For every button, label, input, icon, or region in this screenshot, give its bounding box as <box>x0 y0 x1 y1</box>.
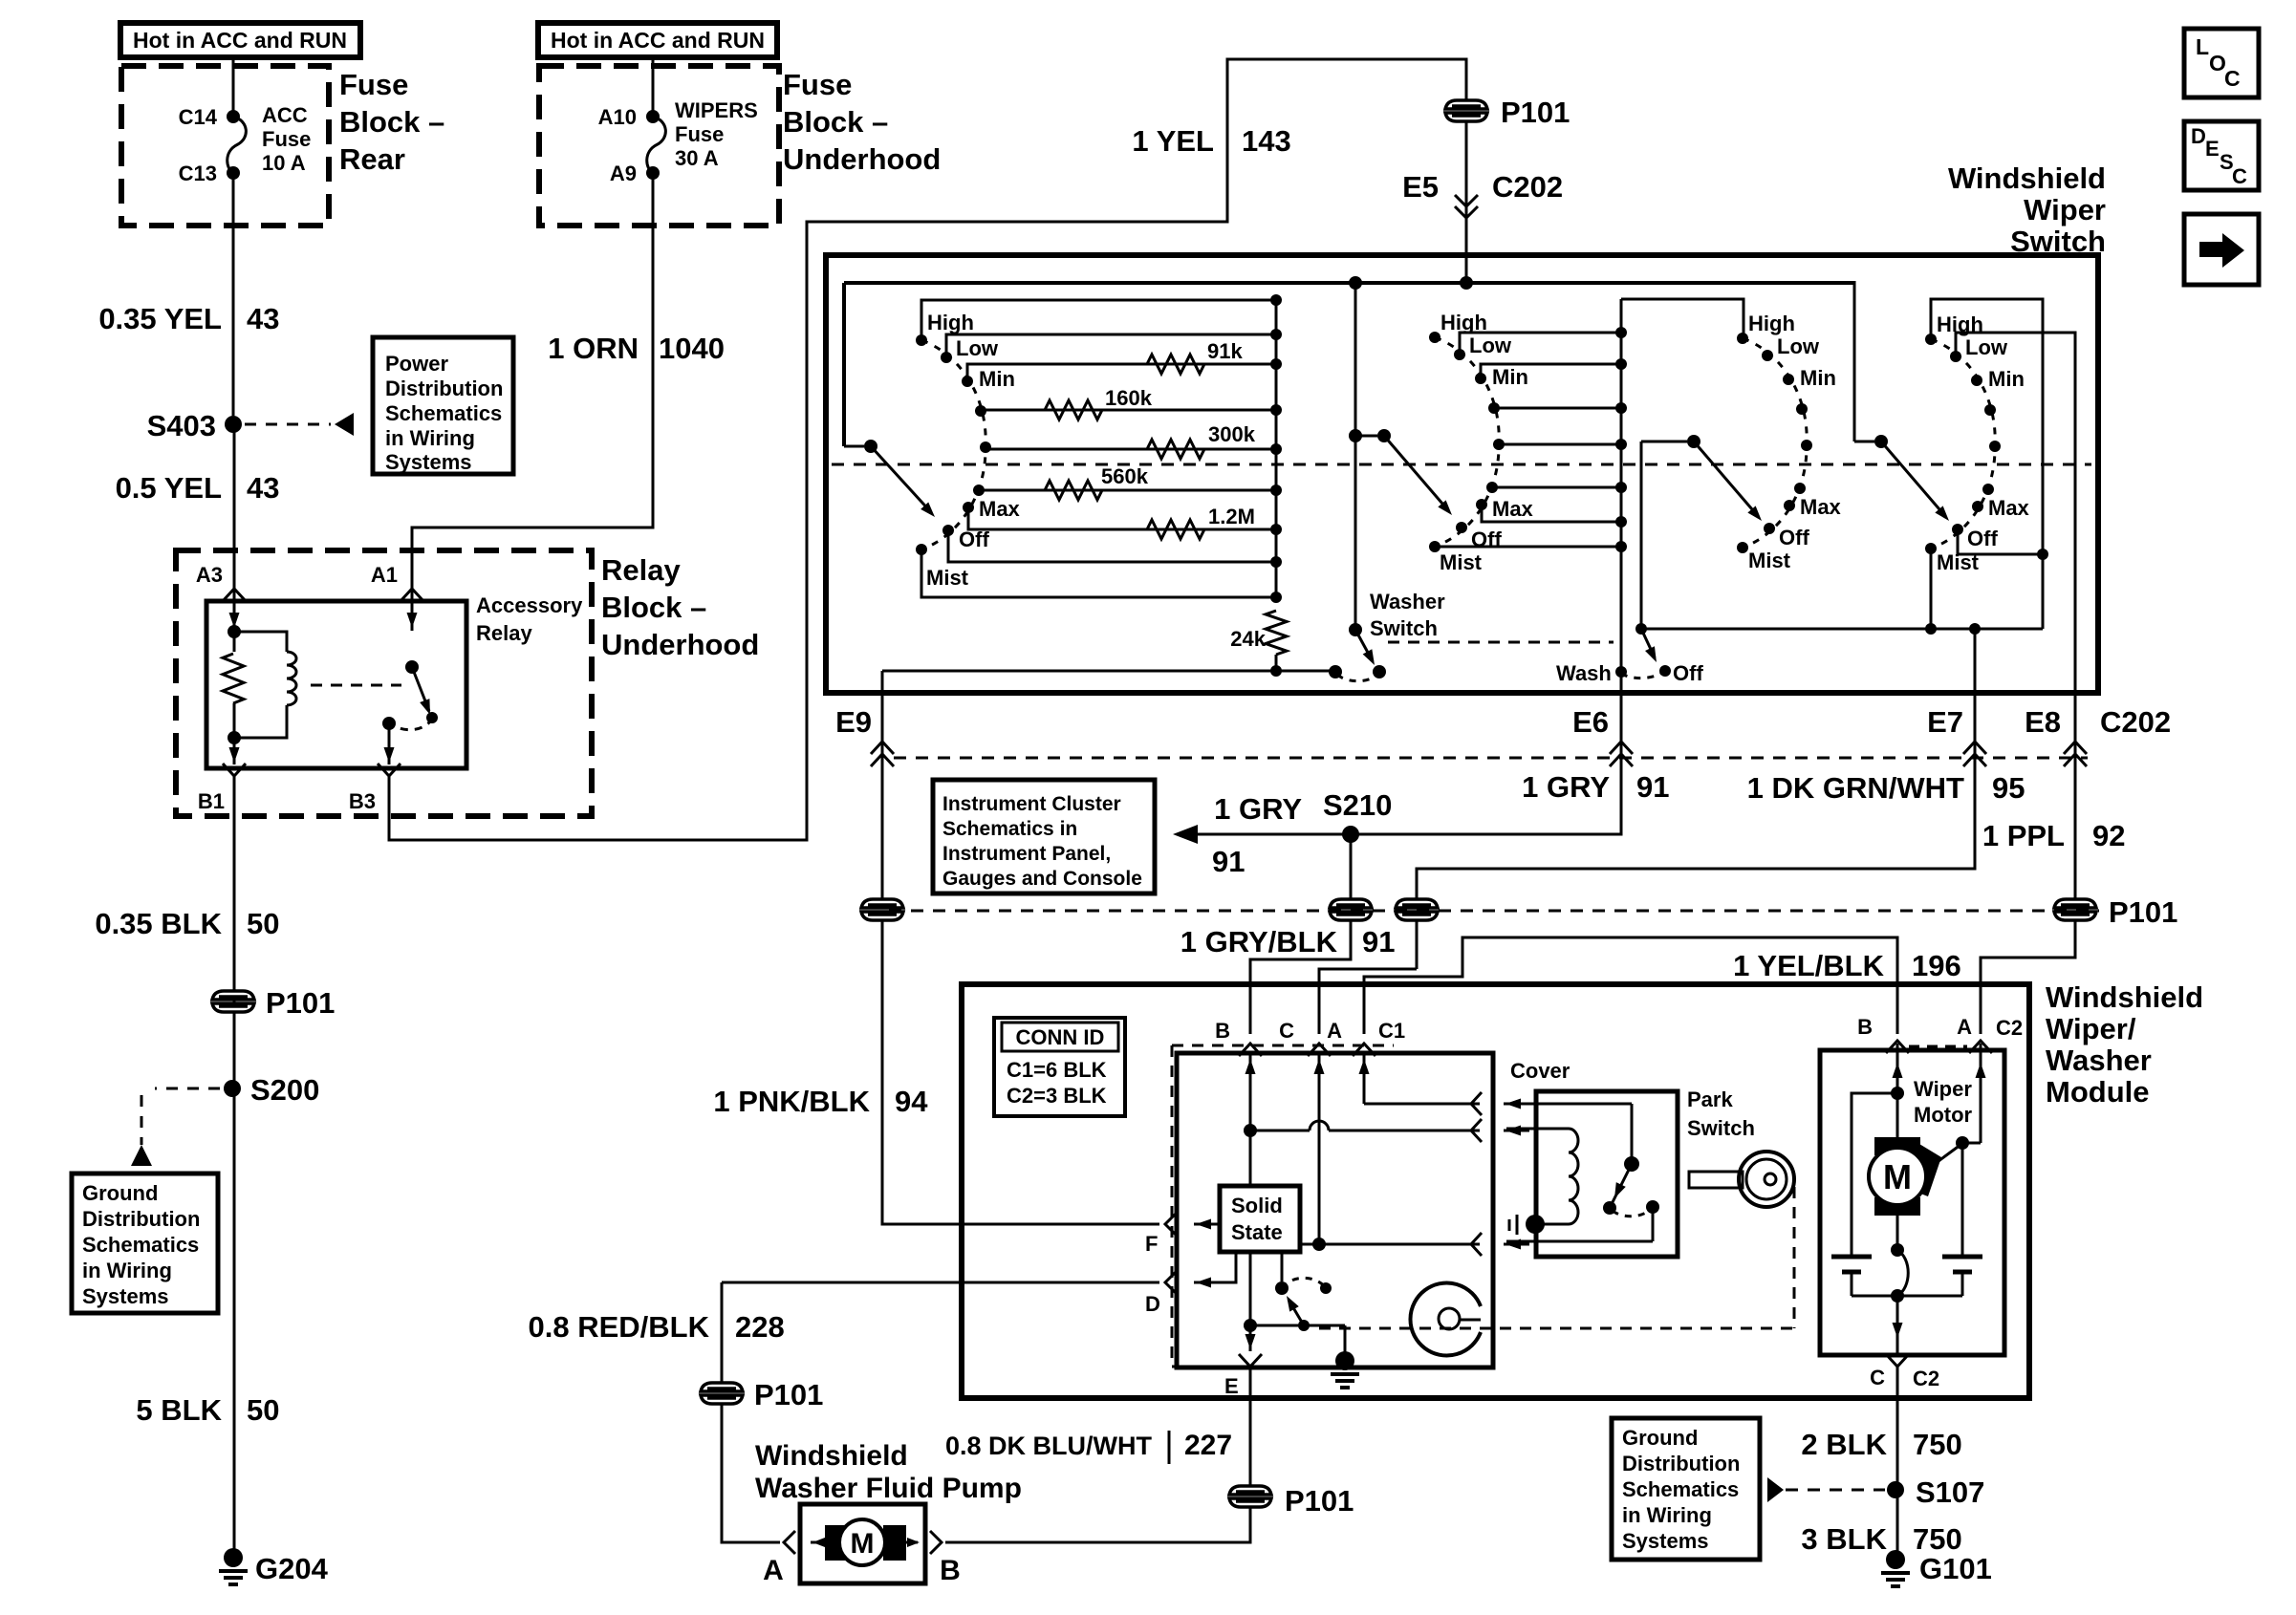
svg-text:C: C <box>1870 1366 1885 1389</box>
svg-text:C1=6 BLK: C1=6 BLK <box>1007 1058 1107 1082</box>
svg-text:196: 196 <box>1912 949 1961 982</box>
svg-text:M: M <box>1883 1157 1912 1196</box>
svg-text:Max: Max <box>1988 496 2030 520</box>
svg-text:0.35 BLK: 0.35 BLK <box>95 907 222 940</box>
svg-text:5 BLK: 5 BLK <box>136 1393 222 1427</box>
svg-text:0.5 YEL: 0.5 YEL <box>116 471 222 505</box>
svg-text:Gauges and Console: Gauges and Console <box>942 868 1142 890</box>
svg-text:50: 50 <box>247 1393 279 1427</box>
svg-text:in Wiring: in Wiring <box>82 1259 172 1282</box>
svg-text:750: 750 <box>1913 1428 1962 1461</box>
svg-text:Wash: Wash <box>1556 661 1612 685</box>
svg-text:High: High <box>1748 312 1795 335</box>
svg-text:Park: Park <box>1687 1087 1733 1111</box>
svg-text:High: High <box>927 311 974 334</box>
svg-text:0.8 DK BLU/WHT: 0.8 DK BLU/WHT <box>945 1432 1153 1460</box>
svg-text:P101: P101 <box>2109 895 2177 929</box>
svg-text:Distribution: Distribution <box>82 1207 200 1231</box>
svg-text:43: 43 <box>247 471 279 505</box>
svg-text:560k: 560k <box>1101 464 1149 488</box>
svg-text:Systems: Systems <box>82 1284 169 1308</box>
svg-text:A10: A10 <box>598 105 637 129</box>
svg-text:Fuse: Fuse <box>783 68 852 101</box>
svg-text:Underhood: Underhood <box>783 142 941 176</box>
svg-text:P101: P101 <box>266 986 335 1020</box>
svg-text:Max: Max <box>979 497 1021 521</box>
svg-text:227: 227 <box>1184 1430 1232 1461</box>
svg-text:E: E <box>2205 137 2220 161</box>
svg-text:Washer: Washer <box>1370 590 1445 614</box>
svg-text:C2: C2 <box>1913 1367 1939 1390</box>
svg-text:Off: Off <box>1967 527 1998 550</box>
svg-text:Fuse: Fuse <box>262 127 311 151</box>
svg-text:1 PPL: 1 PPL <box>1982 819 2065 852</box>
svg-text:Ground: Ground <box>1622 1426 1698 1450</box>
svg-text:in Wiring: in Wiring <box>385 426 475 450</box>
svg-text:C1: C1 <box>1378 1019 1405 1043</box>
svg-text:B: B <box>1215 1019 1230 1043</box>
svg-text:P101: P101 <box>754 1378 823 1411</box>
svg-text:Washer: Washer <box>2046 1044 2152 1077</box>
svg-text:Off: Off <box>1673 661 1703 685</box>
svg-text:E9: E9 <box>835 705 872 739</box>
svg-text:1 ORN: 1 ORN <box>548 332 639 365</box>
svg-text:G101: G101 <box>1919 1552 1992 1585</box>
svg-text:24k: 24k <box>1230 627 1266 651</box>
svg-text:94: 94 <box>895 1085 928 1118</box>
svg-text:C2=3 BLK: C2=3 BLK <box>1007 1084 1107 1108</box>
svg-text:Instrument Panel,: Instrument Panel, <box>942 843 1111 865</box>
svg-text:Min: Min <box>979 367 1015 391</box>
svg-text:1040: 1040 <box>659 332 725 365</box>
svg-text:C2: C2 <box>1996 1016 2023 1040</box>
svg-text:L: L <box>2196 34 2209 59</box>
svg-text:C: C <box>1279 1019 1294 1043</box>
svg-text:143: 143 <box>1242 124 1291 158</box>
svg-text:CONN ID: CONN ID <box>1016 1025 1105 1049</box>
svg-text:Module: Module <box>2046 1075 2150 1109</box>
svg-text:Relay: Relay <box>601 553 681 587</box>
svg-text:Underhood: Underhood <box>601 628 759 661</box>
svg-text:Windshield: Windshield <box>755 1440 908 1472</box>
svg-text:Instrument Cluster: Instrument Cluster <box>942 793 1121 815</box>
svg-text:Systems: Systems <box>1622 1529 1709 1553</box>
svg-text:3 BLK: 3 BLK <box>1801 1522 1887 1556</box>
svg-text:in Wiring: in Wiring <box>1622 1503 1712 1527</box>
svg-text:2 BLK: 2 BLK <box>1801 1428 1887 1461</box>
svg-text:B1: B1 <box>198 789 225 813</box>
svg-text:F: F <box>1145 1232 1158 1256</box>
svg-text:P101: P101 <box>1285 1484 1354 1518</box>
svg-text:E7: E7 <box>1927 705 1963 739</box>
svg-text:Switch: Switch <box>1370 616 1438 640</box>
svg-text:50: 50 <box>247 907 279 940</box>
svg-text:Max: Max <box>1492 497 1534 521</box>
svg-text:S403: S403 <box>147 409 216 442</box>
svg-text:1 YEL: 1 YEL <box>1132 124 1214 158</box>
svg-text:Wiper: Wiper <box>2024 193 2106 226</box>
svg-text:750: 750 <box>1913 1522 1962 1556</box>
svg-text:Wiper: Wiper <box>1914 1077 1972 1101</box>
svg-text:Windshield: Windshield <box>2046 980 2203 1014</box>
svg-text:Hot in ACC and RUN: Hot in ACC and RUN <box>133 28 347 53</box>
svg-text:A: A <box>1957 1015 1972 1039</box>
svg-text:Min: Min <box>1800 366 1836 390</box>
svg-text:C202: C202 <box>2100 705 2171 739</box>
svg-text:State: State <box>1231 1220 1283 1244</box>
svg-text:Low: Low <box>1469 334 1512 357</box>
svg-text:0.35 YEL: 0.35 YEL <box>98 302 222 335</box>
svg-text:Max: Max <box>1800 495 1842 519</box>
svg-text:1 GRY: 1 GRY <box>1522 770 1610 804</box>
svg-text:1 GRY: 1 GRY <box>1214 792 1302 826</box>
svg-text:10 A: 10 A <box>262 151 306 175</box>
svg-text:C202: C202 <box>1492 170 1563 204</box>
svg-text:Motor: Motor <box>1914 1103 1973 1127</box>
svg-text:Min: Min <box>1988 367 2025 391</box>
svg-text:Windshield: Windshield <box>1948 161 2106 195</box>
svg-text:Block –: Block – <box>339 105 444 139</box>
svg-text:C: C <box>2224 66 2241 91</box>
svg-text:B: B <box>940 1555 961 1586</box>
svg-text:S200: S200 <box>250 1073 319 1107</box>
svg-text:Relay: Relay <box>476 621 532 645</box>
svg-text:91k: 91k <box>1207 339 1243 363</box>
svg-text:P101: P101 <box>1501 96 1570 129</box>
svg-text:A9: A9 <box>610 161 637 185</box>
svg-text:High: High <box>1440 311 1487 334</box>
svg-text:Ground: Ground <box>82 1181 158 1205</box>
svg-text:High: High <box>1937 312 1983 336</box>
svg-text:B: B <box>1857 1015 1873 1039</box>
svg-text:Power: Power <box>385 352 448 376</box>
svg-text:1.2M: 1.2M <box>1208 505 1255 528</box>
svg-text:E8: E8 <box>2025 705 2061 739</box>
svg-text:Washer Fluid Pump: Washer Fluid Pump <box>755 1473 1022 1504</box>
svg-text:Schematics: Schematics <box>385 401 502 425</box>
svg-text:Wiper/: Wiper/ <box>2046 1012 2136 1045</box>
svg-text:Hot in ACC and RUN: Hot in ACC and RUN <box>551 28 765 53</box>
svg-text:Off: Off <box>1779 526 1809 549</box>
svg-text:1 PNK/BLK: 1 PNK/BLK <box>713 1085 870 1118</box>
svg-text:43: 43 <box>247 302 279 335</box>
svg-text:Distribution: Distribution <box>1622 1452 1740 1475</box>
svg-text:Solid: Solid <box>1231 1194 1283 1217</box>
svg-text:1 YEL/BLK: 1 YEL/BLK <box>1733 949 1885 982</box>
svg-text:Cover: Cover <box>1510 1059 1570 1083</box>
svg-text:Block –: Block – <box>601 591 706 624</box>
svg-text:91: 91 <box>1362 925 1395 958</box>
svg-text:E: E <box>1224 1374 1239 1398</box>
svg-text:1 DK GRN/WHT: 1 DK GRN/WHT <box>1747 771 1964 805</box>
svg-text:Switch: Switch <box>2010 225 2106 258</box>
svg-text:C14: C14 <box>179 105 218 129</box>
svg-text:Schematics: Schematics <box>1622 1477 1739 1501</box>
svg-text:Off: Off <box>959 528 989 551</box>
svg-text:D: D <box>1145 1292 1160 1316</box>
svg-text:Mist: Mist <box>1748 549 1791 572</box>
svg-text:Fuse: Fuse <box>339 68 408 101</box>
svg-text:Mist: Mist <box>926 566 969 590</box>
svg-text:M: M <box>851 1528 875 1560</box>
svg-text:91: 91 <box>1212 845 1245 878</box>
svg-text:A: A <box>763 1555 784 1586</box>
svg-text:Accessory: Accessory <box>476 593 583 617</box>
svg-text:0.8 RED/BLK: 0.8 RED/BLK <box>529 1310 710 1344</box>
svg-text:1 GRY/BLK: 1 GRY/BLK <box>1180 925 1338 958</box>
svg-text:Fuse: Fuse <box>675 122 724 146</box>
svg-text:Mist: Mist <box>1440 550 1483 574</box>
svg-text:Block –: Block – <box>783 105 888 139</box>
svg-text:C13: C13 <box>179 161 217 185</box>
svg-text:Rear: Rear <box>339 142 405 176</box>
svg-text:91: 91 <box>1636 770 1669 804</box>
svg-text:Switch: Switch <box>1687 1116 1755 1140</box>
svg-text:C: C <box>2232 164 2247 188</box>
svg-text:Systems: Systems <box>385 450 472 474</box>
svg-text:D: D <box>2191 124 2206 148</box>
svg-text:ACC: ACC <box>262 103 308 127</box>
svg-text:A1: A1 <box>371 563 398 587</box>
svg-text:B3: B3 <box>349 789 376 813</box>
svg-text:Low: Low <box>956 336 999 360</box>
svg-text:95: 95 <box>1992 771 2025 805</box>
svg-text:WIPERS: WIPERS <box>675 98 758 122</box>
svg-text:Distribution: Distribution <box>385 377 503 400</box>
svg-text:S107: S107 <box>1916 1475 1984 1509</box>
svg-text:G204: G204 <box>255 1552 329 1585</box>
svg-text:Min: Min <box>1492 365 1528 389</box>
svg-text:Schematics: Schematics <box>82 1233 199 1257</box>
svg-text:Low: Low <box>1777 334 1820 358</box>
svg-text:A3: A3 <box>196 563 223 587</box>
svg-text:92: 92 <box>2092 819 2125 852</box>
svg-text:E5: E5 <box>1402 170 1439 204</box>
svg-text:30 A: 30 A <box>675 146 719 170</box>
svg-text:Low: Low <box>1965 335 2008 359</box>
svg-text:A: A <box>1327 1019 1342 1043</box>
svg-text:160k: 160k <box>1105 386 1153 410</box>
svg-text:Off: Off <box>1471 528 1502 551</box>
svg-text:Mist: Mist <box>1937 550 1980 574</box>
svg-text:228: 228 <box>735 1310 785 1344</box>
svg-text:S210: S210 <box>1323 788 1392 822</box>
svg-text:Schematics in: Schematics in <box>942 818 1077 840</box>
svg-text:300k: 300k <box>1208 422 1256 446</box>
svg-text:E6: E6 <box>1572 705 1609 739</box>
